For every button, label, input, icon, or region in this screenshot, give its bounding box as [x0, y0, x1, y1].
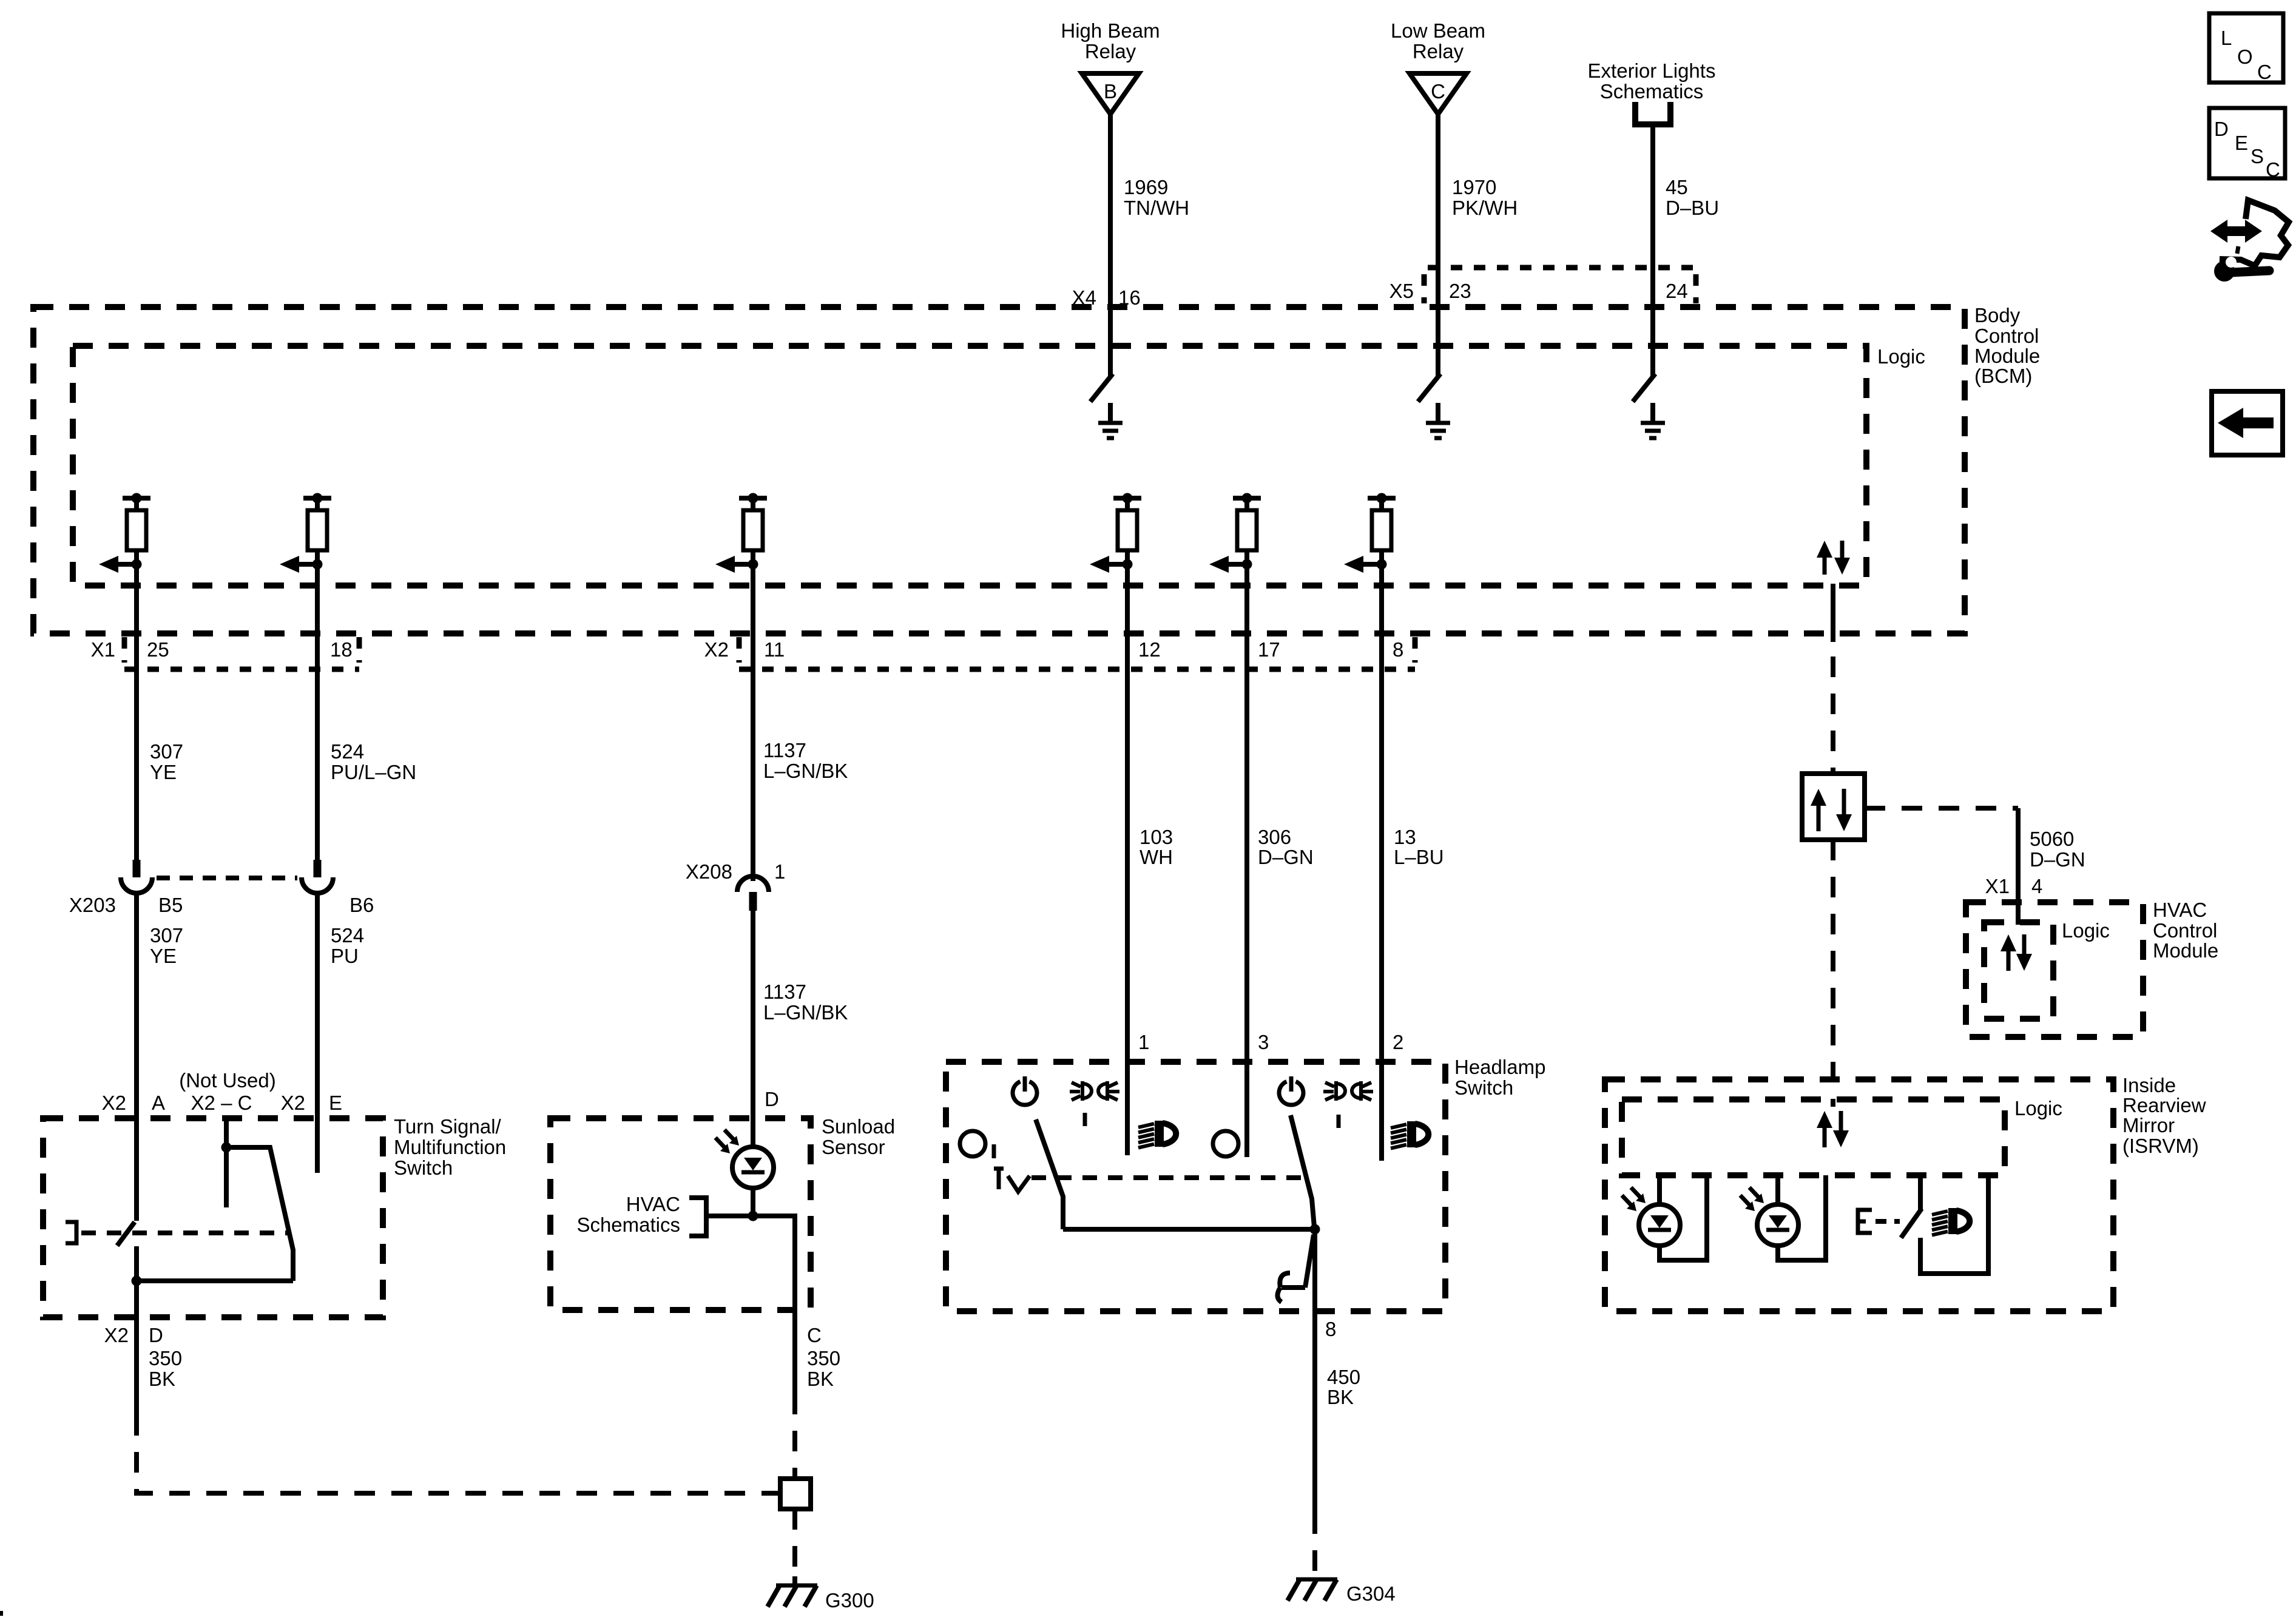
DESC icon box	[2209, 108, 2285, 178]
svg-text:1970: 1970	[1452, 176, 1496, 198]
position circle 2	[1213, 1131, 1238, 1156]
not-used stub	[224, 1118, 229, 1207]
svg-text:X208: X208	[686, 860, 732, 883]
wire 1137 lower	[751, 911, 755, 1147]
svg-text:X1: X1	[91, 638, 115, 661]
svg-text:L–BU: L–BU	[1394, 846, 1444, 868]
svg-text:PK/WH: PK/WH	[1452, 197, 1518, 219]
moving contact from C	[231, 1147, 293, 1281]
ground	[1108, 403, 1113, 421]
svg-text:O: O	[2237, 46, 2253, 68]
svg-text:PU/L–GN: PU/L–GN	[331, 761, 416, 783]
svg-text:X2: X2	[704, 638, 729, 661]
page corner mark	[0, 1611, 3, 1616]
svg-text:BK: BK	[807, 1368, 834, 1390]
svg-text:X2: X2	[104, 1324, 129, 1346]
svg-text:X2: X2	[281, 1092, 305, 1114]
park lamp icon	[1336, 1081, 1345, 1101]
tick	[992, 1144, 996, 1158]
svg-text:A: A	[152, 1092, 165, 1114]
svg-text:307: 307	[150, 924, 183, 947]
driver output resistor at x=2055	[1233, 496, 1261, 501]
svg-text:C: C	[2266, 158, 2280, 181]
svg-text:X2: X2	[102, 1092, 126, 1114]
wire from pin 11 down	[751, 564, 755, 881]
svg-text:Mirror: Mirror	[2122, 1114, 2175, 1136]
dashed to G300	[792, 1509, 797, 1578]
svg-text:BK: BK	[1327, 1386, 1354, 1408]
HVAC Control Module box	[1966, 902, 2143, 1037]
svg-text:103: 103	[1140, 826, 1173, 848]
svg-text:1969: 1969	[1124, 176, 1168, 198]
position circle	[960, 1131, 985, 1156]
off tick 2	[1337, 1115, 1341, 1128]
svg-text:24: 24	[1666, 280, 1688, 302]
svg-text:D–GN: D–GN	[1258, 846, 1314, 868]
wire 13 down	[1379, 564, 1384, 1161]
svg-text:C: C	[807, 1324, 822, 1346]
svg-text:X2 – C: X2 – C	[191, 1092, 252, 1114]
svg-text:17: 17	[1258, 638, 1280, 661]
wire 306 down	[1244, 564, 1249, 1157]
photodiode	[1757, 1204, 1798, 1246]
svg-text:307: 307	[150, 740, 183, 763]
mech link bracket	[66, 1222, 76, 1243]
svg-text:WH: WH	[1140, 846, 1173, 868]
svg-text:G300: G300	[825, 1589, 874, 1612]
dashed connector link	[157, 876, 297, 880]
ground	[1650, 403, 1655, 421]
photodiode	[1639, 1204, 1680, 1246]
Headlamp Switch box	[946, 1062, 1445, 1311]
wire into BCM + open switch to ground	[1436, 114, 1440, 376]
splice junction square	[780, 1479, 811, 1509]
wire 307 YE lower	[134, 893, 139, 1221]
svg-text:HVAC: HVAC	[626, 1193, 680, 1215]
svg-text:L: L	[2221, 27, 2232, 49]
park lamp icon	[1082, 1081, 1092, 1101]
svg-text:3: 3	[1258, 1031, 1269, 1053]
svg-text:5060: 5060	[2030, 828, 2074, 850]
svg-text:(ISRVM): (ISRVM)	[2122, 1135, 2199, 1157]
svg-text:G304: G304	[1346, 1582, 1396, 1605]
svg-text:Turn Signal/: Turn Signal/	[394, 1115, 502, 1138]
driver output resistor at x=1241	[739, 496, 767, 501]
svg-text:X5: X5	[1389, 280, 1414, 302]
dashed down to splice	[792, 1394, 797, 1479]
svg-text:Control: Control	[1974, 325, 2039, 347]
mech dashed link	[81, 1230, 290, 1235]
svg-text:13: 13	[1394, 826, 1416, 848]
wire 524 PU lower	[315, 893, 320, 1173]
dashed to G304	[1312, 1513, 1317, 1573]
connector X5 dotted box pins 23 24	[1428, 265, 1696, 271]
power symbol	[1013, 1082, 1037, 1106]
momentary spring contact	[1305, 1235, 1314, 1288]
svg-text:L–GN/BK: L–GN/BK	[763, 1001, 848, 1024]
wire below blade	[134, 1246, 139, 1415]
svg-text:D–BU: D–BU	[1666, 197, 1719, 219]
LOC icon box	[2209, 13, 2283, 83]
svg-text:B: B	[1104, 80, 1117, 103]
ISRVM Logic box	[1622, 1099, 2005, 1175]
wire 45 D-BU	[1650, 124, 1655, 376]
svg-text:Control: Control	[2153, 919, 2217, 942]
svg-text:Logic: Logic	[1877, 345, 1925, 368]
svg-text:1: 1	[1138, 1031, 1149, 1053]
back arrow icon box	[2212, 391, 2283, 455]
svg-text:Low Beam: Low Beam	[1391, 19, 1485, 42]
driver output resistor at x=225	[123, 496, 150, 501]
svg-text:350: 350	[807, 1347, 840, 1369]
svg-text:Switch: Switch	[1454, 1076, 1513, 1099]
svg-text:Rearview: Rearview	[2122, 1094, 2206, 1116]
svg-text:2: 2	[1393, 1031, 1403, 1053]
svg-text:C: C	[1431, 80, 1445, 103]
svg-text:1: 1	[774, 860, 785, 883]
in-line connector X203 pin B5	[133, 860, 141, 877]
Sunload Sensor box	[550, 1118, 811, 1310]
lamp return wire	[1920, 1175, 1988, 1274]
svg-text:D: D	[2214, 118, 2229, 140]
svg-text:Relay: Relay	[1413, 40, 1464, 62]
serial data box	[1802, 774, 1865, 840]
svg-text:Module: Module	[1974, 345, 2040, 367]
wire into BCM + open switch to ground	[1108, 114, 1113, 376]
driver output resistor at x=2277	[1368, 496, 1396, 501]
dashed branch to HVAC	[1865, 806, 2018, 811]
svg-text:Body: Body	[1974, 304, 2021, 326]
ground G300	[792, 1576, 797, 1585]
svg-text:Sensor: Sensor	[822, 1136, 885, 1158]
Body Control Module outer box	[33, 307, 1965, 633]
photodiode	[732, 1147, 774, 1188]
svg-text:PU: PU	[331, 945, 359, 967]
svg-text:12: 12	[1138, 638, 1161, 661]
mech dashed link	[1032, 1175, 1305, 1180]
switch blade on 307 wire	[117, 1222, 135, 1246]
svg-text:18: 18	[330, 638, 353, 661]
svg-text:Relay: Relay	[1085, 40, 1136, 62]
in-line connector X208 pin 1	[737, 876, 769, 892]
svg-text:D: D	[149, 1324, 163, 1346]
HVAC Logic box	[1984, 922, 2053, 1019]
svg-text:Multifunction: Multifunction	[394, 1136, 506, 1158]
svg-text:B5: B5	[158, 894, 183, 916]
beam lamp icon	[1391, 1124, 1406, 1128]
svg-text:524: 524	[331, 740, 364, 763]
svg-text:1137: 1137	[763, 981, 806, 1003]
contact bus	[137, 1278, 293, 1283]
Turn Signal Multifunction Switch box	[43, 1118, 383, 1317]
svg-text:C: C	[2257, 61, 2272, 83]
dashed wire down to ISRVM	[1831, 840, 1835, 1107]
photodiode 2 circuit	[1775, 1175, 1780, 1204]
svg-text:YE: YE	[150, 945, 177, 967]
svg-text:11: 11	[764, 638, 785, 661]
svg-text:Logic: Logic	[2062, 919, 2110, 942]
svg-text:B6: B6	[349, 894, 374, 916]
wire 8 down	[1312, 1229, 1317, 1513]
svg-text:Sunload: Sunload	[822, 1115, 895, 1138]
svg-text:Logic: Logic	[2014, 1097, 2062, 1119]
svg-text:E: E	[2235, 132, 2248, 154]
auto symbol	[994, 1167, 1004, 1171]
serial wire stub	[1831, 584, 1835, 642]
svg-text:450: 450	[1327, 1366, 1360, 1388]
beam lamp icon	[1932, 1211, 1948, 1215]
connector repair icon: connector outline	[2220, 200, 2289, 266]
wire 5060 D-GN	[2016, 808, 2021, 925]
svg-text:Schematics: Schematics	[576, 1214, 680, 1236]
wire 103 down	[1125, 564, 1130, 1155]
relay symbol B	[1082, 73, 1139, 114]
svg-text:L–GN/BK: L–GN/BK	[763, 760, 848, 782]
svg-text:8: 8	[1393, 638, 1403, 661]
svg-text:TN/WH: TN/WH	[1124, 197, 1189, 219]
ground G304	[1296, 1578, 1337, 1582]
svg-text:HVAC: HVAC	[2153, 899, 2207, 921]
svg-text:Switch: Switch	[394, 1156, 453, 1179]
svg-text:306: 306	[1258, 826, 1291, 848]
wire C 350 BK	[753, 1216, 795, 1394]
photodiode 1 circuit	[1657, 1175, 1662, 1204]
svg-text:1137: 1137	[763, 739, 806, 761]
svg-text:(BCM): (BCM)	[1974, 365, 2032, 387]
E actuator glyph	[1858, 1210, 1872, 1233]
off-page bracket	[1635, 102, 1670, 124]
connector repair icon: wrench	[2232, 271, 2269, 272]
svg-text:4: 4	[2031, 875, 2042, 897]
svg-text:350: 350	[149, 1347, 182, 1369]
svg-text:E: E	[329, 1092, 342, 1114]
svg-text:8: 8	[1325, 1318, 1336, 1340]
svg-text:Module: Module	[2153, 939, 2218, 962]
relay symbol C	[1410, 73, 1467, 114]
BCM Logic inner box	[73, 346, 1866, 586]
dashed 350 BK run to splice	[137, 1415, 780, 1493]
driver output resistor at x=1858	[1113, 496, 1141, 501]
svg-text:Schematics: Schematics	[1600, 80, 1704, 103]
svg-text:25: 25	[147, 638, 169, 661]
driver output resistor at x=523	[303, 496, 331, 501]
svg-text:D: D	[765, 1088, 779, 1110]
connector repair icon: double arrow	[2210, 220, 2262, 243]
ground	[1436, 403, 1440, 421]
svg-text:X1: X1	[1985, 875, 2010, 897]
svg-text:D–GN: D–GN	[2030, 848, 2085, 871]
serial data dashed wire from BCM	[1831, 657, 1835, 774]
switch blade 1	[1036, 1119, 1063, 1229]
svg-text:BK: BK	[149, 1368, 175, 1390]
svg-text:45: 45	[1666, 176, 1688, 198]
svg-text:Inside: Inside	[2122, 1074, 2176, 1096]
svg-text:YE: YE	[150, 761, 177, 783]
switch blade 2	[1291, 1115, 1314, 1227]
svg-text:Headlamp: Headlamp	[1454, 1056, 1545, 1078]
svg-text:S: S	[2250, 145, 2264, 167]
beam lamp icon	[1138, 1124, 1154, 1127]
power symbol	[1279, 1082, 1303, 1106]
svg-text:X203: X203	[69, 894, 116, 916]
off tick	[1083, 1113, 1087, 1126]
svg-text:High Beam: High Beam	[1061, 19, 1160, 42]
contact bus	[1063, 1227, 1315, 1232]
BCM serial data arrows	[1823, 556, 1827, 575]
svg-text:524: 524	[331, 924, 364, 947]
svg-text:23: 23	[1449, 280, 1471, 302]
mirror lamp switch	[1918, 1175, 1923, 1211]
wire from pin 18 down	[315, 564, 320, 860]
wire from pin 25 down	[134, 564, 139, 860]
svg-text:(Not Used): (Not Used)	[179, 1069, 276, 1092]
svg-text:Exterior Lights: Exterior Lights	[1588, 59, 1716, 82]
in-line connector X203 pin B6	[314, 860, 322, 877]
Inside Rearview Mirror box	[1605, 1079, 2113, 1311]
